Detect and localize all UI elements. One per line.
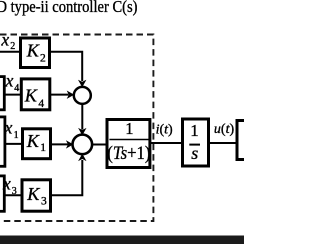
svg-text:K: K — [26, 40, 40, 60]
bottom separator bar — [0, 236, 244, 244]
wire transfer block to integrator — [150, 142, 183, 144]
block 1/s integrator — [183, 119, 209, 166]
label x3 — [2, 174, 17, 197]
wire x2 input — [0, 51, 20, 53]
svg-text:K: K — [26, 131, 40, 151]
svg-text:4: 4 — [14, 83, 19, 94]
svg-text:1: 1 — [190, 121, 199, 140]
plant block (cut at right edge) — [237, 121, 257, 160]
svg-text:x: x — [2, 174, 11, 194]
label x2 — [0, 30, 15, 52]
cut block left (x1 source) — [0, 117, 5, 166]
svg-text:x: x — [0, 30, 9, 50]
arrow into junction 2 top — [78, 128, 86, 135]
wire x3 input — [4, 194, 22, 196]
block K2 — [21, 38, 50, 68]
wire x4 input — [4, 94, 21, 96]
cut block left (x4 source) — [0, 77, 4, 110]
wire K4 output to junction 1 — [50, 94, 69, 96]
cut block left (x3 source) — [0, 176, 4, 211]
label x1 — [4, 118, 19, 141]
wire K1 output to junction 2 — [51, 143, 68, 145]
svg-text:3: 3 — [41, 195, 47, 207]
arrow into junction 1 top — [78, 80, 86, 88]
wire x1 input — [4, 143, 23, 145]
svg-text:K: K — [26, 184, 40, 204]
svg-text:2: 2 — [40, 52, 46, 64]
wire integrator to plant — [208, 142, 237, 144]
svg-text:1: 1 — [14, 130, 19, 141]
block 1/(Ts+1) — [107, 119, 151, 168]
svg-text:u(t): u(t) — [214, 122, 235, 137]
arrow into junction 1 left — [67, 91, 75, 99]
svg-text:(Ts+1): (Ts+1) — [107, 143, 150, 164]
arrow into junction 2 bottom — [78, 154, 86, 162]
dashed boundary of controller C(s) — [0, 35, 153, 222]
block K4 — [21, 79, 50, 110]
wire junction 2 to transfer block — [92, 144, 107, 146]
svg-text:1: 1 — [125, 119, 133, 138]
svg-text:x: x — [4, 118, 13, 138]
wire junction 1 to junction 2 — [81, 104, 83, 130]
arrow into junction 2 left — [66, 140, 74, 148]
svg-text:K: K — [24, 85, 38, 105]
block K3 — [22, 180, 51, 211]
svg-text:i(t): i(t) — [156, 123, 173, 138]
label x4 — [5, 71, 20, 94]
block K1 — [23, 129, 51, 159]
wire K3 output up to junction 2 — [51, 160, 82, 195]
svg-text:2: 2 — [10, 41, 15, 52]
summing junction 1 — [74, 87, 91, 104]
svg-text:4: 4 — [38, 98, 44, 110]
svg-text:x: x — [5, 71, 14, 91]
svg-text:1: 1 — [40, 142, 46, 154]
wire K2 output to junction 1 — [50, 52, 82, 81]
svg-text:D type-ii controller C(s): D type-ii controller C(s) — [0, 0, 138, 16]
svg-text:s: s — [191, 143, 198, 163]
svg-text:3: 3 — [12, 186, 17, 197]
summing junction 2 — [73, 135, 93, 155]
